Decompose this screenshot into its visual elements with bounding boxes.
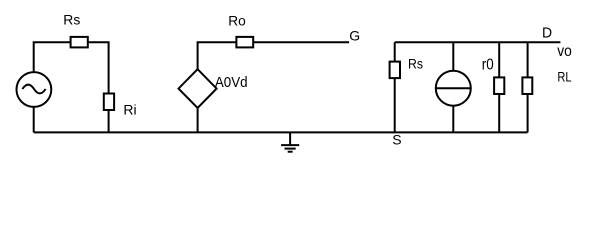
resistor RL <box>522 77 532 94</box>
dependent source U1 A0Vd (diamond) <box>179 69 217 108</box>
current source I1 <box>436 71 471 106</box>
wire r0 top <box>498 42 500 77</box>
svg-text:S: S <box>392 131 401 147</box>
resistor Ri <box>104 94 114 111</box>
wire RL bottom <box>527 94 529 132</box>
svg-text:G: G <box>349 27 360 43</box>
svg-text:Ri: Ri <box>123 102 136 118</box>
wire Ro to node G <box>253 41 349 43</box>
wire Rs2 bottom <box>394 78 396 132</box>
svg-text:D: D <box>542 25 552 42</box>
wire Rs to Ri top <box>88 42 109 93</box>
wire Ri bottom <box>108 110 110 132</box>
resistor Ro <box>236 37 253 48</box>
wire bottom bus <box>34 131 528 133</box>
wire diamond top to Ro <box>198 42 237 70</box>
resistor r0 <box>494 77 504 94</box>
wire source top to Rs <box>34 42 71 72</box>
svg-text:A0Vd: A0Vd <box>215 74 248 91</box>
svg-text:Rs: Rs <box>408 56 423 72</box>
svg-text:Rs: Rs <box>63 12 80 28</box>
wire RL top <box>527 42 529 77</box>
svg-text:Ro: Ro <box>228 12 246 28</box>
svg-text:r0: r0 <box>482 57 494 74</box>
resistor Rs <box>71 37 88 48</box>
resistor Rs2 <box>390 62 400 79</box>
voltage source V1 (AC) <box>17 72 52 107</box>
svg-text:RL: RL <box>557 68 571 84</box>
wire diamond bottom <box>197 107 199 132</box>
wire r0 bottom <box>498 94 500 132</box>
wire source bottom <box>33 106 35 132</box>
wire Rs2 top <box>394 42 396 61</box>
ground <box>281 132 299 151</box>
wire top bus right section (node D) <box>395 41 561 43</box>
wire current source top <box>452 42 454 70</box>
wire current source bottom <box>452 106 454 133</box>
svg-text:vo: vo <box>557 43 572 60</box>
